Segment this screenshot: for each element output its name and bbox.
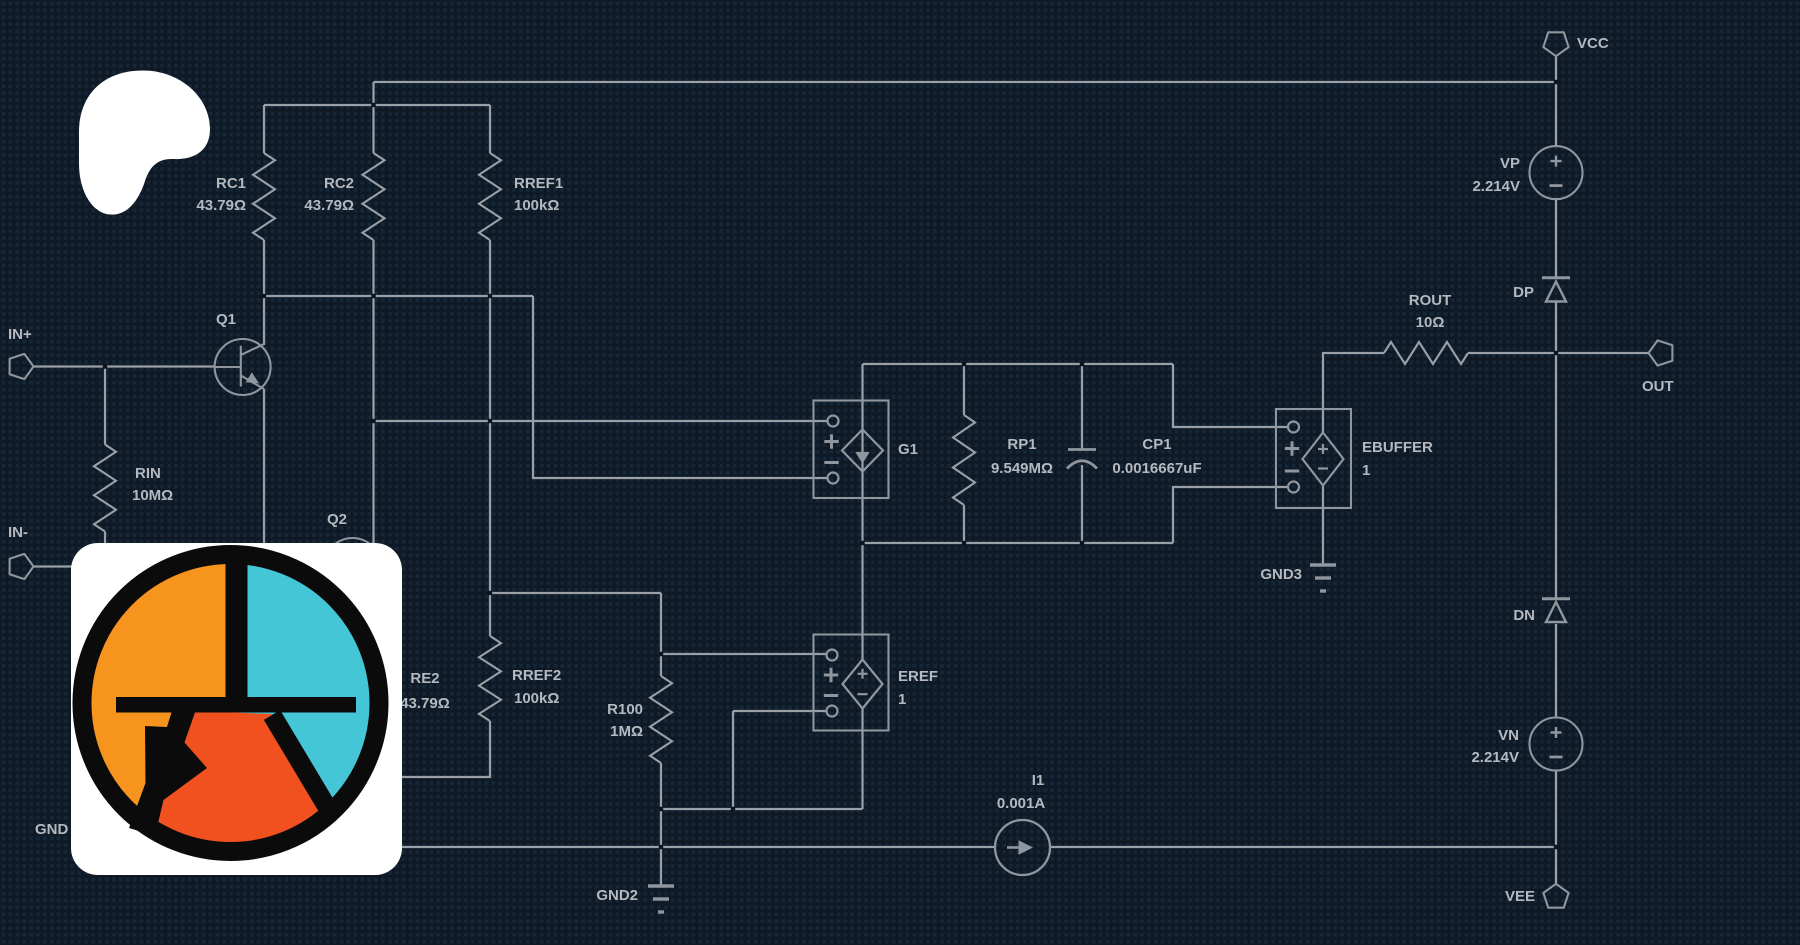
wire CP1 leads: [1081, 364, 1083, 543]
svg-text:G1: G1: [898, 441, 918, 458]
resistor RE2 hidden: [363, 636, 385, 721]
wire EBUFFER out bottom: [1322, 485, 1324, 565]
wire EREF minus input: [733, 711, 827, 809]
ground GND2: [660, 847, 662, 886]
node flag IN+: [10, 354, 34, 379]
Patreon logo blob: [72, 64, 217, 219]
svg-text:VP: VP: [1500, 155, 1520, 172]
svg-text:IN+: IN+: [8, 326, 32, 343]
junction node 373.5,105: [371, 103, 375, 107]
resistor RC2 43.79ohm: [363, 153, 385, 240]
wire VCC drop: [1555, 55, 1557, 146]
svg-text:RREF2: RREF2: [512, 667, 561, 684]
resistor R100 1M: [650, 676, 672, 763]
svg-text:Q1: Q1: [216, 311, 236, 328]
wire R100 bottom to rail: [660, 763, 662, 847]
svg-text:1: 1: [898, 691, 906, 708]
junction node 964,543: [962, 541, 966, 545]
wire EBUFFER out top: [1323, 353, 1384, 433]
logo ring: [82, 555, 379, 852]
junction node 964,364: [962, 362, 966, 366]
EBUFFER minus: [1285, 470, 1299, 473]
wire DN to VN: [1555, 624, 1557, 718]
G1 diamond current source: [842, 430, 883, 472]
wire RC1 leads: [263, 105, 265, 296]
svg-text:VN: VN: [1498, 727, 1519, 744]
wire RP1 leads: [963, 364, 965, 543]
junction node 490,421: [488, 419, 492, 423]
svg-text:1MΩ: 1MΩ: [610, 723, 643, 740]
EREF diamond voltage source: [843, 660, 883, 709]
junction node 1556,847: [1554, 845, 1558, 849]
junction node 1556,353: [1554, 351, 1558, 355]
junction node 373.5,296: [371, 294, 375, 298]
svg-text:2.214V: 2.214V: [1471, 749, 1519, 766]
wire DP to DN: [1555, 301, 1557, 599]
wire Q1 base: [33, 365, 215, 367]
wire EREF plus input: [661, 653, 827, 655]
junction node 1556,82: [1554, 80, 1558, 84]
junction node 490,296: [488, 294, 492, 298]
ground GND3: [1310, 563, 1336, 566]
resistor ROUT 10ohm: [1384, 342, 1468, 364]
svg-text:R100: R100: [607, 701, 643, 718]
dependent source EREF box: [814, 635, 889, 731]
svg-text:DP: DP: [1513, 284, 1534, 301]
wire VP to DP: [1555, 199, 1557, 278]
node flag VCC: [1543, 32, 1568, 56]
wire node A drop to G1 minus: [533, 296, 828, 478]
junction node 373.5,421: [371, 419, 375, 423]
EREF plus: [824, 668, 838, 682]
logo red sector: [155, 711, 333, 853]
wire RC tops: [264, 104, 490, 106]
svg-text:GND2: GND2: [596, 887, 638, 904]
wire bottom rail right: [1049, 846, 1556, 848]
wire ROUT right to OUT: [1468, 352, 1649, 354]
svg-text:RC2: RC2: [324, 175, 354, 192]
wire Q2 base (hidden): [264, 565, 325, 567]
svg-text:1: 1: [1362, 462, 1370, 479]
resistor RREF2 100k: [479, 636, 501, 721]
wire RC2 leads: [372, 105, 374, 296]
wire G1 output column: [861, 364, 863, 660]
capacitor CP1: [1068, 448, 1096, 451]
svg-text:VCC: VCC: [1577, 35, 1609, 52]
resistor RC1 43.79ohm: [253, 153, 275, 240]
resistor RREF1 100k: [479, 153, 501, 240]
logo emitter arrow: [129, 701, 207, 836]
svg-text:0.001A: 0.001A: [997, 795, 1046, 812]
diode DP: [1542, 278, 1570, 302]
wire RREF2 bottom lead: [300, 721, 490, 777]
logo transistor base bar: [116, 697, 356, 713]
wire RC2 bottom to node B: [372, 296, 374, 421]
svg-text:Q2: Q2: [327, 511, 347, 528]
wire RIN top lead: [104, 367, 106, 445]
wire node A horizontal: [264, 295, 533, 297]
wire node B to G1 plus: [374, 420, 829, 422]
wire RIN bottom lead: [104, 532, 106, 567]
svg-text:VEE: VEE: [1505, 888, 1535, 905]
wire bottom rail left: [300, 846, 996, 848]
svg-text:DN: DN: [1513, 607, 1535, 624]
CircuitLab logo: [71, 543, 402, 875]
svg-text:RE2: RE2: [410, 670, 439, 687]
node flag VEE: [1543, 884, 1568, 908]
logo orange sector: [83, 555, 379, 851]
junction node 862.5,543: [860, 541, 864, 545]
junction node 733,809: [731, 807, 735, 811]
svg-text:0.0016667uF: 0.0016667uF: [1112, 460, 1201, 477]
G1 minus: [824, 461, 838, 464]
wire top VCC rail: [374, 81, 1557, 83]
wire EREF out bottom: [661, 708, 863, 809]
svg-text:I1: I1: [1032, 772, 1045, 789]
wire rail riser: [372, 82, 374, 105]
svg-text:EREF: EREF: [898, 668, 938, 685]
resistor RP1 9.549M: [953, 415, 975, 505]
svg-text:10Ω: 10Ω: [1416, 314, 1445, 331]
transistor Q1: [215, 339, 271, 395]
svg-text:RREF1: RREF1: [514, 175, 563, 192]
junction node 264,296: [262, 294, 266, 298]
wire RREF1 leads: [489, 105, 491, 296]
junction node 1082,364: [1080, 362, 1084, 366]
current source I1: [995, 820, 1050, 875]
node flag IN-: [10, 554, 34, 579]
voltage source VN: [1530, 718, 1583, 771]
svg-text:CP1: CP1: [1142, 436, 1171, 453]
node flag OUT: [1649, 340, 1673, 365]
transistor Q2 (mostly hidden): [325, 538, 381, 594]
svg-text:ROUT: ROUT: [1409, 292, 1452, 309]
G1 input pin circles: [828, 416, 839, 427]
resistor RIN 10M: [94, 445, 116, 532]
svg-text:IN-: IN-: [8, 524, 28, 541]
logo collector/emitter diagonal: [272, 715, 333, 817]
dependent source G1 box: [814, 401, 889, 499]
wire RREF2 tap to R100: [490, 593, 661, 676]
EBUFFER input pin circles: [1288, 422, 1299, 433]
wire Q1 collector: [263, 296, 265, 345]
svg-text:9.549MΩ: 9.549MΩ: [991, 460, 1053, 477]
wire rail G1 top: [863, 364, 1289, 427]
svg-text:43.79Ω: 43.79Ω: [304, 197, 354, 214]
wire rail G1 bottom: [863, 487, 1289, 543]
wire Q1 emitter down: [263, 389, 265, 566]
wire IN- lead: [33, 565, 105, 567]
svg-text:OUT: OUT: [1642, 378, 1674, 395]
wire Q2 collector: [372, 421, 374, 547]
svg-text:RIN: RIN: [135, 465, 161, 482]
logo cyan sector: [231, 555, 379, 813]
diode DN: [1542, 599, 1570, 622]
svg-text:10MΩ: 10MΩ: [132, 487, 173, 504]
svg-text:RP1: RP1: [1007, 436, 1036, 453]
G1 plus: [824, 434, 838, 448]
junction node 105,366.5: [103, 364, 107, 368]
svg-text:2.214V: 2.214V: [1472, 178, 1520, 195]
EREF minus: [824, 694, 838, 697]
junction node 661,654: [659, 652, 663, 656]
svg-text:GND: GND: [35, 821, 69, 838]
dependent source EBUFFER box: [1276, 409, 1351, 508]
EBUFFER diamond voltage source: [1303, 433, 1344, 486]
junction node 1082,543: [1080, 541, 1084, 545]
voltage source VP: [1530, 146, 1583, 199]
svg-text:100kΩ: 100kΩ: [514, 690, 559, 707]
EREF input pin circles: [827, 650, 838, 661]
svg-text:EBUFFER: EBUFFER: [1362, 439, 1433, 456]
svg-text:100kΩ: 100kΩ: [514, 197, 559, 214]
junction node 661,809: [659, 807, 663, 811]
svg-text:RC1: RC1: [216, 175, 246, 192]
wire RREF1 to RREF2 column: [489, 296, 491, 636]
junction node 661,847: [659, 845, 663, 849]
svg-text:43.79Ω: 43.79Ω: [400, 695, 450, 712]
svg-text:GND3: GND3: [1260, 566, 1302, 583]
logo transistor collector bar: [226, 553, 248, 705]
EBUFFER plus: [1285, 441, 1299, 455]
junction node 490,593: [488, 591, 492, 595]
wire VN to VEE: [1555, 770, 1557, 885]
